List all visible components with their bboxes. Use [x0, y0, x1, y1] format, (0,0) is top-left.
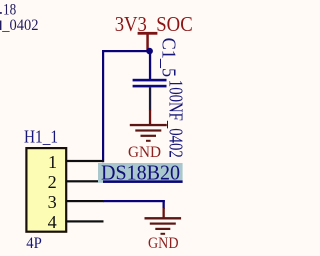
svg-text:1: 1: [48, 152, 57, 172]
svg-text:C1_5: C1_5: [158, 38, 180, 78]
left GND stem (red): [149, 110, 151, 125]
svg-text:100NF_0402: 100NF_0402: [165, 80, 187, 158]
svg-text:_0402: _0402: [1, 17, 38, 34]
net highlight DS18B20: [98, 163, 183, 183]
svg-text:4P: 4P: [26, 235, 42, 252]
wire: capacitor top stem: [149, 50, 151, 80]
clipped value text line 2 "_0402": [0, 17, 39, 34]
svg-text:4: 4: [48, 212, 57, 232]
right ground symbol bars: [145, 217, 182, 235]
pin 4: [66, 220, 104, 222]
pin 2: [66, 180, 104, 182]
capacitor C1_5 plate 1: [133, 79, 167, 82]
pin 3: [66, 200, 104, 202]
capacitor bottom pin: [149, 87, 151, 110]
wire: pin3 horizontal to GND: [103, 200, 165, 202]
power stem: [146, 33, 149, 51]
svg-text:GND: GND: [148, 235, 179, 252]
svg-text:2: 2: [48, 172, 57, 192]
svg-text:18: 18: [3, 1, 16, 18]
clipped designator text (off-sheet component) line 1 "_18": [0, 1, 16, 18]
svg-text:DS18B20: DS18B20: [101, 161, 180, 185]
wire: pin3 vertical drop: [163, 200, 165, 209]
svg-text:3: 3: [48, 192, 57, 212]
left ground symbol bars: [130, 124, 167, 142]
svg-text:GND: GND: [128, 144, 161, 161]
wire: vertical down to pin 1: [102, 50, 104, 162]
junction dot: [146, 48, 153, 55]
pin 1: [66, 160, 104, 162]
wire: horizontal from junction to left corner: [102, 50, 150, 52]
power bar symbol 3V3_SOC: [138, 32, 158, 35]
wire: pin2 net DS18B20: [103, 180, 183, 183]
svg-text:H1_1: H1_1: [24, 127, 58, 147]
right GND stem (red): [163, 208, 165, 218]
capacitor C1_5 plate 2: [133, 85, 167, 88]
connector H1_1 body: [26, 148, 66, 232]
